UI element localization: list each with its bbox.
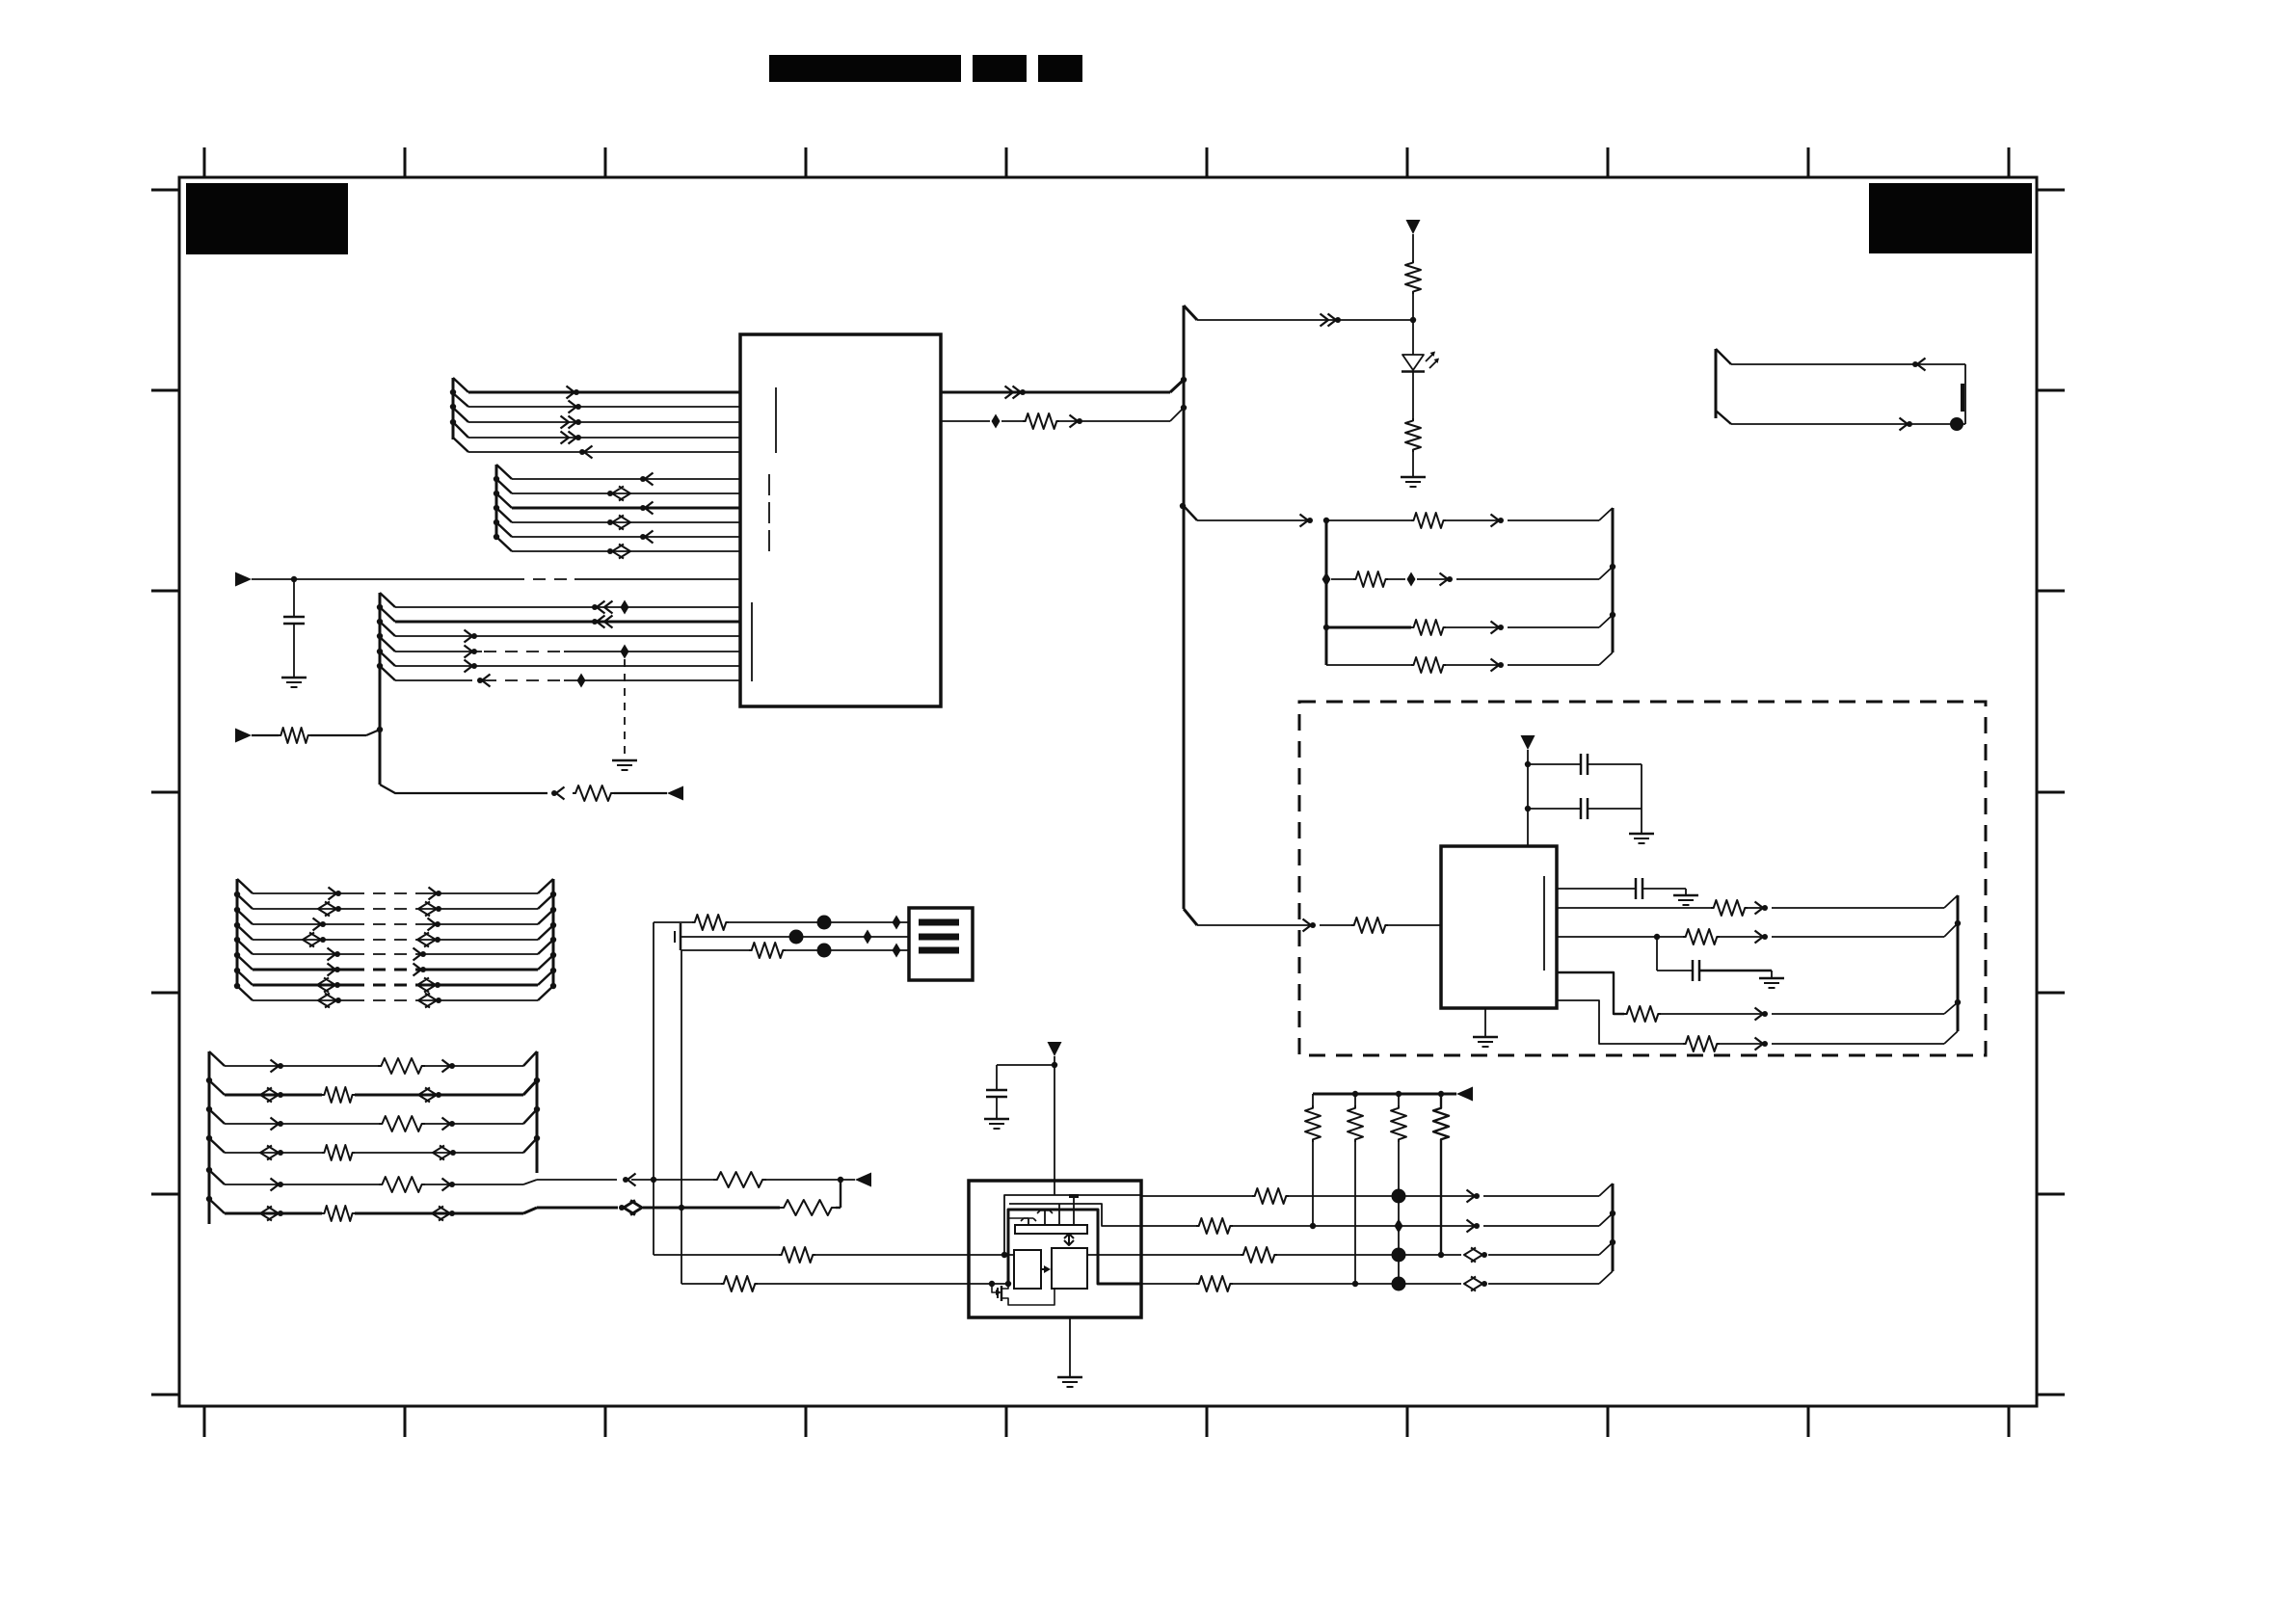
border frame [179, 177, 2037, 1406]
wire R33 to U3 [815, 1254, 969, 1256]
pull-up rail [1313, 1093, 1456, 1096]
wire IN1 to U1 [252, 578, 512, 580]
wire A5 [468, 451, 740, 453]
wire J1-3 [681, 949, 749, 951]
U1 inner pin line 2 dashed [768, 474, 770, 553]
arrow on out1 [1005, 386, 1022, 399]
arrows on G8 [335, 998, 341, 1003]
arrow on I1 left [271, 1060, 280, 1073]
bus fan B vertical [495, 465, 498, 538]
LED D1 [1402, 355, 1424, 370]
U3 loop wire 1 [1004, 1195, 1141, 1255]
diamond marker C4 [621, 645, 629, 659]
node out3 big [1392, 1248, 1406, 1263]
link vertical VB [681, 950, 682, 1284]
resistor R3 [1023, 413, 1059, 429]
wire br1 to fan [1508, 519, 1599, 521]
bus fan E vertical [1715, 349, 1718, 418]
wire I1 [225, 1065, 378, 1067]
U3 node loop3 [1005, 1281, 1011, 1287]
arrow on C2 [597, 616, 613, 628]
wire G6 [253, 969, 352, 971]
bus fan B stubs [496, 465, 512, 551]
wire br1 right [1446, 519, 1497, 521]
resistor R24 [749, 943, 786, 958]
arrow on C3 [465, 630, 473, 643]
wire U3 out2 [1141, 1225, 1196, 1227]
node out2 to bus [1181, 405, 1187, 411]
wire U2 pinC [1557, 936, 1683, 938]
wire U3 ground stub [1069, 1317, 1071, 1376]
arrow on I3 left [271, 1118, 280, 1131]
transistor Q1 mosfet [992, 1284, 998, 1292]
arrow on I3 right [442, 1118, 451, 1131]
bus fan I junction dots [206, 1078, 212, 1083]
resistor R5 [1405, 418, 1421, 452]
arrow on loop bottom [1900, 418, 1909, 431]
wire R12 cont [1720, 936, 1761, 938]
node bus branch1 [1180, 503, 1186, 509]
wire LED to R5 [1412, 372, 1414, 418]
capacitor C2 [1528, 763, 1581, 765]
module U3 [969, 1181, 1141, 1317]
capacitor C7 [986, 1089, 1007, 1092]
bottom border ticks [204, 1406, 2009, 1437]
arrow on LED branch [1321, 314, 1337, 327]
wire out1 to fan [1483, 1195, 1599, 1197]
wire C6 [395, 679, 472, 681]
arrow on A3 [561, 416, 577, 429]
wire out1 cont [1289, 1195, 1473, 1197]
wire J1-1 cont [729, 921, 909, 923]
U2 inner pin line [1543, 876, 1545, 971]
wire G4 [253, 939, 352, 941]
resistor R13 [1624, 1006, 1661, 1022]
arrow on I5 left [271, 1179, 280, 1191]
node out2 fan [1610, 1211, 1615, 1216]
arrow on C6 [482, 675, 491, 687]
arrows on G3 [313, 918, 322, 931]
resistor R23 [692, 915, 729, 930]
U3 loop wire 2 [1009, 1204, 1141, 1226]
wire B3 [512, 507, 740, 510]
wire pinC sub [1656, 937, 1658, 971]
node pinC fan [1955, 920, 1961, 926]
arrow on B2 [607, 491, 613, 496]
wire VCC3 to U3 [1054, 1056, 1055, 1195]
arrow on br1 left [1300, 515, 1309, 527]
resistor R26 [1196, 1218, 1233, 1234]
node out4 big [1392, 1277, 1406, 1291]
wire out2 seg3 [1059, 420, 1170, 422]
bus fan G stubs [237, 879, 253, 1000]
wire R5 to ground [1412, 452, 1414, 476]
resistor R6 [1411, 513, 1446, 528]
right border ticks [2037, 190, 2065, 1395]
wire br2 to fan [1456, 578, 1599, 580]
wire br3 [1326, 626, 1411, 629]
bus fan D vertical [1612, 508, 1615, 652]
resistor R2 [573, 785, 614, 801]
bus fan A vertical [452, 378, 455, 439]
wire R34 to U3 [758, 1283, 969, 1285]
wire br4 right [1446, 664, 1497, 666]
resistor R8 [1411, 620, 1446, 635]
wire G7 [253, 984, 352, 987]
dashed stub to ground [624, 659, 626, 759]
arrow on C1 [597, 601, 613, 614]
wire pinB to fan [1772, 907, 1944, 909]
diamond junction out2 [1395, 1219, 1403, 1234]
node br3 fan [1610, 612, 1615, 618]
bus main vertical [1183, 306, 1186, 909]
bus fan C stubs [380, 593, 395, 680]
ground for C7 [984, 1118, 1009, 1121]
wire U2 pinA [1557, 888, 1636, 890]
wire G5 [253, 953, 352, 955]
wire br2 cont [1417, 578, 1446, 580]
node pinC [1654, 934, 1660, 940]
wire IN2 [252, 734, 279, 736]
bus fan K vertical [1612, 1184, 1615, 1271]
wire I6 up link [836, 1207, 841, 1209]
arrow on I4 right [450, 1150, 456, 1156]
resistor R21 [713, 1172, 766, 1187]
wire tee to C7 [997, 1064, 1055, 1066]
wire U3 out3 [1141, 1254, 1241, 1256]
left border ticks [151, 190, 179, 1395]
node VCC3 cap tee [1052, 1062, 1057, 1068]
arrow on out4 [1482, 1281, 1487, 1287]
arrow on out3 [1482, 1252, 1487, 1258]
U3 input wire 4 [969, 1283, 1008, 1285]
resistor R10 [1351, 918, 1388, 933]
redacted label box top-right [1869, 183, 2032, 253]
arrow on A5 [584, 446, 593, 459]
bus fan G junction dots [234, 891, 240, 897]
redacted title bar 2 [973, 55, 1027, 82]
arrow on out2 [1070, 415, 1079, 428]
wire br4 to fan [1508, 664, 1599, 666]
arrow on R2 wire [556, 787, 565, 800]
wire U3 out1 [1141, 1195, 1252, 1197]
wire C1 [395, 606, 740, 608]
loopback right link [1964, 364, 1966, 424]
bus fan C vertical [379, 593, 382, 785]
wire A4 [468, 437, 740, 439]
arrows on G7 [334, 982, 340, 988]
wire U2 pinE [1557, 1000, 1683, 1044]
node out1 to bus [1181, 377, 1187, 383]
wire out3 cont [1277, 1254, 1461, 1256]
resistor R4 [1405, 260, 1421, 294]
wire br1 [1197, 519, 1306, 521]
arrow on br4 [1491, 659, 1500, 672]
input connector IN2 [235, 729, 252, 743]
U3 loop wire 3 thick [1008, 1210, 1141, 1284]
wire out3 to fan [1488, 1254, 1599, 1256]
U1 inner pin line 1 [775, 387, 777, 453]
wire R10 to U2 [1388, 924, 1441, 926]
bus fan J junction dots [534, 1078, 540, 1083]
arrows on G1 [329, 888, 337, 900]
wire B4 [512, 521, 740, 523]
wire br4 [1326, 664, 1411, 666]
node on J1-1 [817, 916, 832, 930]
power symbol VCC2 [1521, 735, 1535, 750]
wire I3 [225, 1123, 379, 1125]
diamond marker J1-3 [893, 944, 901, 958]
redacted title bar 1 [769, 55, 961, 82]
U3 node mosfet gate [989, 1281, 995, 1287]
wire br2 [1331, 578, 1353, 580]
bus fan C junction dots [377, 604, 383, 610]
wire fanC bottom [380, 785, 547, 793]
bus fan A junction dots [450, 389, 456, 395]
arrow on B5 [645, 531, 654, 544]
pull-up R32 [1440, 1094, 1442, 1105]
resistor R18 [322, 1145, 355, 1160]
IC U1 [740, 334, 941, 706]
wire I4 [225, 1152, 322, 1154]
wire R14 cont [1720, 1043, 1761, 1045]
bus branch1 bend [1184, 506, 1197, 520]
node on IN1 wire [291, 576, 297, 582]
U3 internal block A [1014, 1250, 1041, 1289]
wire I6 mid [643, 1207, 780, 1210]
resistor R9 [1411, 657, 1446, 673]
wire B2 [512, 492, 740, 494]
diamond junction br2 [1322, 572, 1331, 587]
wire pinC to fan [1772, 936, 1944, 938]
wire I6 [225, 1212, 322, 1215]
arrow on B1 [645, 473, 654, 486]
bus top bend [1184, 306, 1197, 320]
wire A3 [468, 421, 740, 423]
wire U2 pinD [1557, 972, 1624, 1014]
resistor R16 [322, 1087, 355, 1103]
wire I5 cont [537, 1179, 617, 1181]
arrow on pinD [1755, 1008, 1764, 1021]
wire R13 cont [1661, 1013, 1761, 1015]
off-page connector left [667, 786, 683, 801]
arrow on loop top [1917, 359, 1926, 371]
node VCC2 a [1525, 761, 1531, 767]
link vertical VA [653, 922, 654, 1255]
wire out2 to fan [1483, 1225, 1599, 1227]
arrow on I4 left [278, 1150, 283, 1156]
bus fan I stubs [209, 1051, 225, 1213]
wire G3 [253, 923, 352, 925]
wire br3 to fan [1508, 626, 1599, 628]
wire I5 mid [631, 1179, 713, 1181]
arrows on G6 [328, 964, 336, 976]
arrow on C5 [465, 660, 473, 673]
wire bus to U2 [1197, 924, 1309, 926]
pull-up R29 [1312, 1094, 1314, 1105]
wire C7 to ground [996, 1097, 998, 1118]
connector J1 [909, 908, 973, 980]
bus fan I vertical [208, 1051, 211, 1224]
rail nodes [1352, 1091, 1358, 1097]
wire C5 [395, 665, 740, 667]
U3 double arrow [1064, 1234, 1074, 1245]
wire C4 to ground [1642, 888, 1686, 890]
bus bottom bend [1184, 909, 1197, 925]
arrow on I6 left [278, 1211, 283, 1216]
top border ticks [204, 147, 2009, 177]
wire br2 mid [1388, 578, 1405, 580]
wire VA to U3 [654, 1254, 779, 1256]
node out3 fan [1610, 1239, 1615, 1245]
resistor R15 [378, 1058, 425, 1074]
ground for C4 stub [612, 759, 637, 762]
node I5 crossing [651, 1177, 656, 1183]
U3 loop wire 4 [1008, 1217, 1028, 1219]
resistor R33 [779, 1247, 815, 1263]
diamond marker J1-2 [864, 930, 872, 945]
resistor R20 [322, 1206, 355, 1221]
node VCC2 b [1525, 806, 1531, 811]
arrow on I1 right [442, 1060, 451, 1073]
wire I5 [225, 1184, 379, 1185]
node br3 [1323, 625, 1329, 630]
wire out2 cont [1233, 1225, 1473, 1227]
resistor R14 [1683, 1036, 1720, 1051]
node br1 [1323, 518, 1329, 523]
bus fan A stubs [453, 378, 468, 452]
loopback wire top [1731, 363, 1965, 365]
U3 internal block B [1052, 1248, 1087, 1289]
arrow on A2 [569, 401, 577, 413]
off-page connector K2 [1456, 1087, 1473, 1102]
arrow on A4 [561, 432, 577, 444]
wire G8 [253, 999, 352, 1001]
wire A2 [468, 406, 740, 408]
node pinD fan [1955, 999, 1961, 1005]
bus fan H vertical [552, 879, 555, 986]
arrow on pinE [1755, 1038, 1764, 1051]
wire R4 to node [1412, 294, 1414, 320]
wire C4 [395, 651, 482, 652]
ground for U3 [1057, 1376, 1082, 1379]
U3 bar stubs [1028, 1218, 1029, 1225]
IC U2 [1441, 846, 1557, 1008]
ground for LED chain [1401, 476, 1426, 479]
U3 input wire 3 [969, 1254, 1014, 1256]
wire U3 out4 [1141, 1283, 1196, 1285]
ground for C4 [1673, 894, 1698, 897]
arrows on G2 [335, 906, 341, 912]
ground for C2 C3 [1629, 833, 1654, 836]
diamond marker out2 [992, 414, 1001, 429]
diamond marker J1-1 [893, 916, 901, 930]
diamond marker br2 [1407, 572, 1416, 587]
arrow on pinC [1755, 931, 1764, 944]
wire out4 cont [1233, 1283, 1461, 1285]
capacitor C5 [1692, 960, 1695, 981]
U3 block A to B arrow [1041, 1268, 1047, 1270]
pull-up R30 [1354, 1094, 1356, 1105]
wire C2 [395, 621, 740, 624]
resistor R17 [379, 1116, 425, 1131]
branch sub vertical [1325, 520, 1328, 665]
arrow on out1 [1467, 1190, 1476, 1203]
arrow on pinB [1755, 902, 1764, 915]
arrow on I2 right [436, 1092, 441, 1098]
wire U2 input cont [1320, 924, 1351, 926]
resistor R25 [1252, 1188, 1289, 1204]
arrow on br3 [1491, 622, 1500, 634]
node I5 join [838, 1177, 843, 1183]
input connector IN1 [235, 572, 252, 587]
wire A1 [468, 391, 740, 394]
wire VCC1 to R4 [1412, 234, 1414, 260]
wire U1 out2 seg1 [941, 420, 990, 422]
arrow on I2 left [278, 1092, 283, 1098]
loopback wire bottom [1731, 423, 1965, 425]
node br2 fan [1610, 564, 1615, 570]
arrow on br2 [1440, 573, 1449, 586]
ground for C1 [281, 677, 307, 679]
arrow on I5 right [442, 1179, 451, 1191]
capacitor C3 [1528, 808, 1581, 810]
wire J1-3 cont [786, 949, 909, 951]
bus fan F vertical [1957, 895, 1960, 1031]
wire bus to LED node [1197, 319, 1413, 321]
diamond marker C1 [621, 600, 629, 615]
node out3 pull [1438, 1252, 1444, 1258]
wire I5 end [766, 1179, 855, 1181]
off-page connector K1 [855, 1173, 871, 1187]
U1 inner pin line 3 [751, 602, 753, 681]
bus fan J vertical [536, 1051, 539, 1173]
wire U1 out1 [941, 391, 1170, 394]
resistor R11 [1711, 900, 1748, 916]
fan E stubs [1716, 349, 1731, 364]
arrow on B6 [607, 548, 613, 554]
arrows on G4 [320, 937, 326, 943]
ground for U2 [1473, 1036, 1498, 1039]
wire out2 seg2 [1001, 420, 1023, 422]
power symbol VCC1 [1406, 220, 1421, 234]
node out4 a [1352, 1281, 1358, 1287]
wire br3 right [1446, 626, 1497, 628]
ground for C5 [1759, 977, 1784, 980]
node out1 big [1392, 1189, 1406, 1204]
wire pinD to fan [1772, 1013, 1944, 1015]
wire I2 [225, 1094, 322, 1097]
arrows on G5 [328, 948, 336, 961]
loopback pin bar [1961, 384, 1964, 412]
resistor R22 [780, 1200, 836, 1215]
wire R1 to bus [310, 734, 366, 736]
bus fan H junction dots [550, 891, 556, 897]
node on J1-2 [789, 930, 804, 945]
resistor R28 [1196, 1276, 1233, 1291]
pull-up R31 [1398, 1094, 1400, 1105]
arrow on I5 cont [627, 1174, 636, 1186]
resistor R12 [1683, 929, 1720, 945]
resistor R19 [379, 1177, 425, 1192]
wire br1 cont [1323, 519, 1411, 521]
arrow on A1 [567, 386, 575, 399]
stub capacitor C6 [674, 931, 676, 943]
wire J1-2 [681, 936, 909, 938]
resistor R7 [1353, 572, 1388, 587]
capacitor C4 [1635, 878, 1638, 899]
arrow on I6 right [449, 1211, 455, 1216]
